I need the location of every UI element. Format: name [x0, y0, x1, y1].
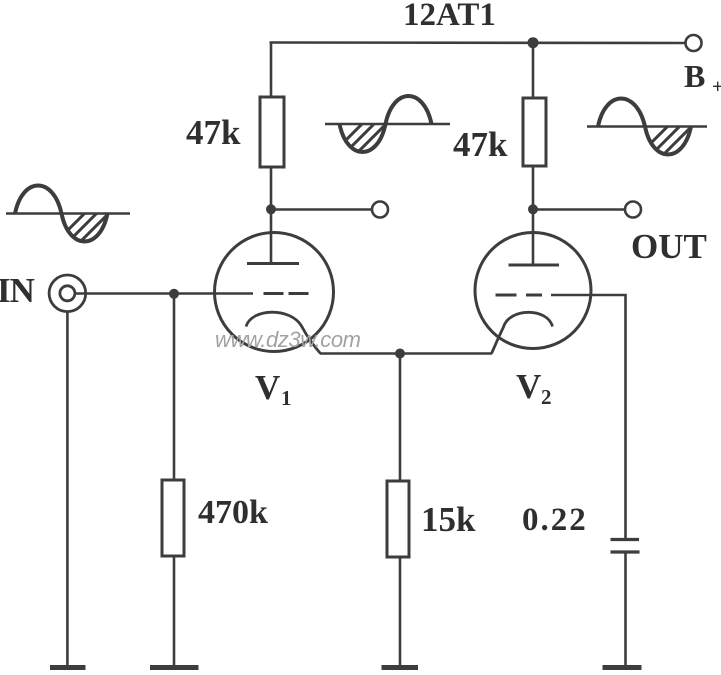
terminal IN (inner circle): [60, 286, 75, 301]
svg-text:2: 2: [541, 385, 552, 409]
waveform V1 plate sine (inverted): [325, 96, 450, 163]
ground under R4: [382, 665, 419, 670]
svg-text:OUT: OUT: [631, 227, 707, 266]
tube V1 envelope: [215, 233, 334, 352]
svg-text:V: V: [516, 367, 541, 406]
svg-text:V: V: [255, 368, 280, 407]
wire V2 grid to cap: [551, 295, 626, 539]
terminal OUT: [625, 202, 641, 218]
tube V2 cathode: [492, 312, 553, 353]
capacitor C1 0.22: [611, 540, 640, 553]
resistor R3 470k (grid leak): [162, 480, 184, 556]
tube V1 grid dashes: [264, 292, 309, 295]
svg-text:IN: IN: [0, 271, 35, 310]
wire rail to R1 top: [270, 43, 273, 98]
wire R4 to ground: [399, 557, 402, 666]
wire rail to R2 top: [532, 43, 535, 99]
wire R1 bottom to plate junction: [270, 167, 273, 209]
tube V1 cathode: [246, 312, 321, 353]
label B+: [684, 58, 721, 98]
resistor R1 47k (left plate load): [260, 97, 284, 167]
wire junction down to V1 plate: [270, 210, 273, 263]
svg-text:B: B: [684, 58, 705, 94]
tube V2 plate bar: [509, 264, 560, 267]
wire R3 to ground: [173, 556, 176, 666]
ground under cap: [603, 665, 642, 670]
svg-text:0.22: 0.22: [522, 502, 588, 538]
node cathode junction: [395, 349, 405, 359]
wire cathode bus: [320, 352, 492, 355]
wire junction down to R4: [399, 354, 402, 482]
wire R2 bottom to plate junction: [532, 166, 535, 209]
node V1 plate junction: [266, 204, 276, 214]
svg-text:+: +: [712, 76, 721, 98]
wire junction to OUT terminal: [533, 208, 625, 211]
ground under IN: [50, 665, 86, 670]
label V1: [255, 368, 292, 410]
svg-text:47k: 47k: [453, 125, 508, 164]
wire junction down to R3: [173, 294, 176, 481]
svg-text:12AT1: 12AT1: [403, 0, 496, 33]
svg-text:1: 1: [281, 386, 292, 410]
node IN junction: [169, 289, 179, 299]
svg-text:www.dz3w.com: www.dz3w.com: [215, 327, 361, 352]
node V2 plate junction: [528, 204, 538, 214]
wire IN to grid V1: [75, 292, 253, 295]
svg-text:470k: 470k: [198, 494, 268, 531]
terminal IN (outer ring): [49, 275, 86, 312]
tube V1 plate bar: [247, 262, 299, 265]
waveform input sine: [6, 186, 130, 253]
terminal V1 plate output: [372, 202, 388, 218]
terminal B+: [686, 35, 702, 51]
wire IN down to ground: [66, 312, 69, 666]
node top rail junction: [528, 37, 539, 48]
svg-text:15k: 15k: [421, 500, 476, 539]
wire junction to aux terminal: [271, 208, 372, 211]
svg-text:47k: 47k: [186, 113, 241, 152]
label V2: [516, 367, 552, 409]
tube V2 grid dashes: [496, 294, 543, 297]
ground under R3: [150, 665, 199, 670]
wire junction down to V2 plate: [532, 210, 535, 265]
wire cap to ground: [624, 552, 627, 666]
waveform V2 plate sine: [587, 99, 711, 165]
resistor R2 47k (right plate load): [523, 98, 546, 166]
wire top supply rail: [270, 41, 686, 44]
tube V2 envelope: [475, 233, 591, 349]
resistor R4 15k (cathode): [387, 481, 409, 557]
